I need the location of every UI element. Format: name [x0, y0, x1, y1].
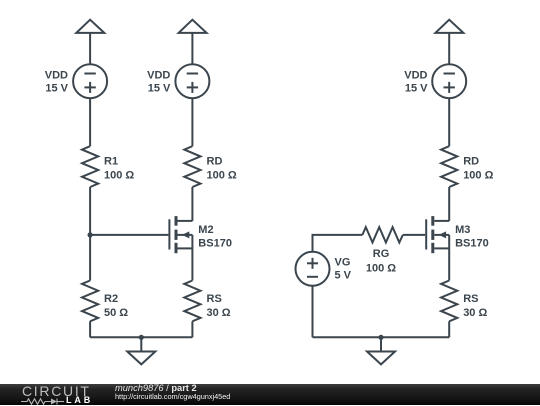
svg-text:15 V: 15 V: [405, 83, 428, 95]
svg-text:M2: M2: [198, 224, 213, 236]
svg-text:VDD: VDD: [45, 70, 68, 82]
resistor R2 50 ohm: [82, 281, 128, 322]
voltage source V2 VDD 15V: [147, 64, 209, 98]
wire: [191, 321, 193, 337]
svg-text:R1: R1: [104, 156, 118, 168]
ground (left circuit): [127, 337, 155, 364]
voltage source VG 5V: [296, 252, 352, 286]
wire (bottom rail right circuit): [313, 336, 450, 338]
wire (drain lead): [448, 187, 450, 221]
svg-text:100 Ω: 100 Ω: [207, 170, 237, 182]
transistor M2 BS170: [169, 216, 232, 280]
node junction dot (ground tap right): [378, 335, 383, 340]
resistor RS 30 ohm (left circuit): [184, 281, 230, 322]
resistor R1 100 ohm: [82, 146, 134, 187]
voltage source V1 VDD 15V: [45, 64, 107, 98]
svg-text:15 V: 15 V: [45, 83, 68, 95]
svg-text:BS170: BS170: [455, 237, 489, 249]
svg-text:RD: RD: [463, 156, 479, 168]
footer text: [115, 384, 230, 401]
transistor M3 BS170: [426, 216, 489, 280]
resistor RD 100 ohm (left circuit): [184, 146, 237, 187]
wire: [191, 33, 193, 64]
svg-text:30 Ω: 30 Ω: [463, 307, 487, 319]
wire: [89, 33, 91, 64]
wire: [448, 33, 450, 64]
power VDD symbol (left branch 2): [179, 20, 207, 33]
power VDD symbol (left branch 1): [76, 20, 104, 33]
wire: [191, 98, 193, 146]
wire: [448, 98, 450, 146]
svg-text:100 Ω: 100 Ω: [463, 170, 493, 182]
svg-text:100 Ω: 100 Ω: [366, 262, 396, 274]
node junction dot (gate tap): [88, 232, 93, 237]
svg-text:R2: R2: [104, 293, 118, 305]
power VDD symbol (right circuit): [435, 20, 463, 33]
wire: [89, 98, 91, 146]
voltage source V3 VDD 15V: [404, 64, 466, 98]
svg-text:30 Ω: 30 Ω: [207, 307, 231, 319]
ground (right circuit): [367, 337, 395, 364]
wire: [89, 187, 91, 281]
svg-text:RD: RD: [207, 156, 223, 168]
svg-text:VDD: VDD: [147, 70, 170, 82]
svg-text:M3: M3: [455, 224, 470, 236]
wire (drain lead): [191, 187, 193, 221]
svg-text:15 V: 15 V: [148, 83, 171, 95]
resistor RS 30 ohm (right circuit): [441, 281, 487, 322]
svg-text:VDD: VDD: [404, 70, 427, 82]
svg-text:RS: RS: [463, 293, 478, 305]
wire (VG bottom): [312, 286, 314, 338]
wire: [448, 321, 450, 337]
wire (VG top to gate rail): [313, 235, 363, 252]
svg-text:RG: RG: [373, 248, 390, 260]
wire (bottom rail left circuit): [90, 336, 192, 338]
node junction dot (ground tap left): [139, 335, 144, 340]
wire (RG to gate): [403, 234, 425, 236]
resistor RG 100 ohm: [362, 227, 402, 274]
svg-text:VG: VG: [335, 257, 351, 269]
resistor RD 100 ohm (right circuit): [441, 146, 494, 187]
svg-text:50 Ω: 50 Ω: [104, 307, 128, 319]
svg-text:100 Ω: 100 Ω: [104, 170, 134, 182]
svg-text:RS: RS: [207, 293, 222, 305]
footer bar: [0, 384, 540, 405]
wire: [89, 321, 91, 337]
svg-text:BS170: BS170: [198, 237, 232, 249]
svg-text:5 V: 5 V: [335, 270, 352, 282]
CircuitLab logo: [22, 385, 91, 398]
wire (gate rail left): [90, 234, 168, 236]
